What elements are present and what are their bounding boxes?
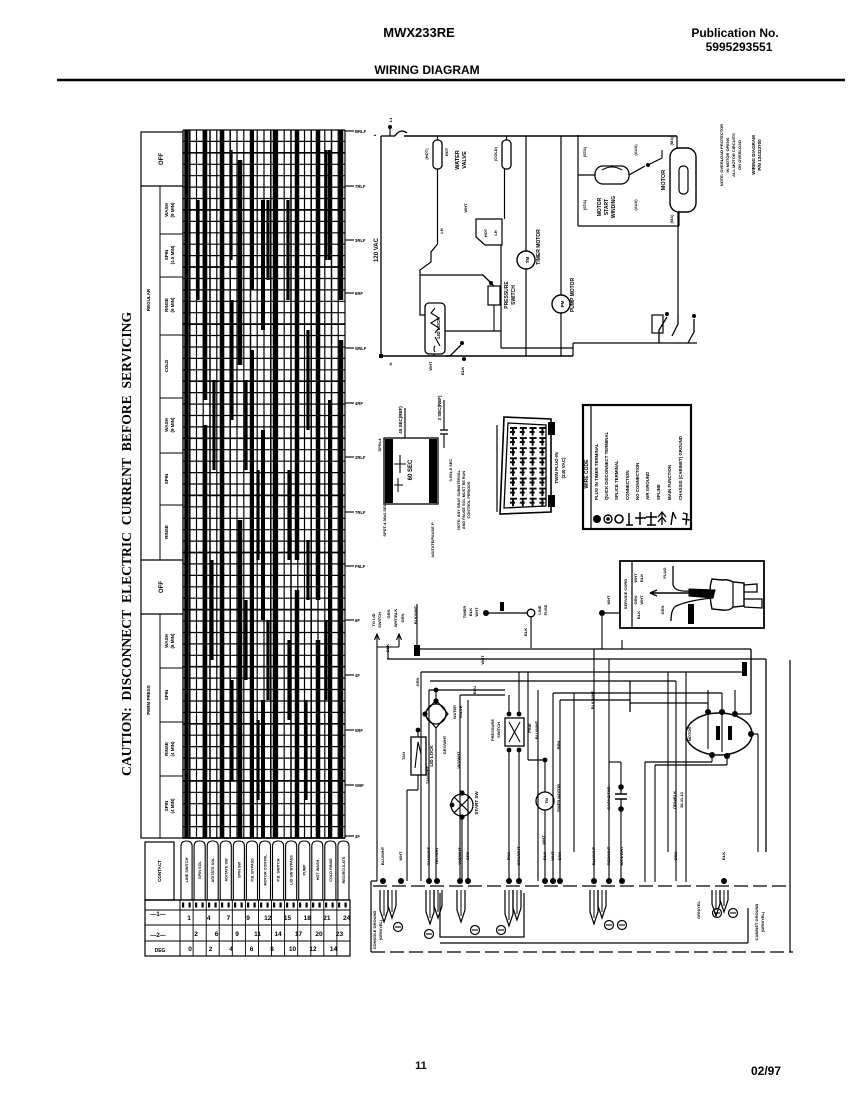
svg-text:PM: PM — [560, 300, 565, 307]
svg-text:GRN: GRN — [386, 609, 391, 618]
secondary bus wires — [415, 662, 747, 690]
svg-text:SPLICE TERMINAL: SPLICE TERMINAL — [614, 460, 619, 500]
svg-text:MOTOR CONTRL: MOTOR CONTRL — [264, 854, 268, 886]
svg-text:SPIN SW: SPIN SW — [237, 862, 241, 878]
ground spades — [380, 890, 728, 926]
svg-text:SPIN: SPIN — [164, 250, 169, 261]
timer intervals box — [377, 406, 438, 537]
motor circuit enclosure — [578, 135, 679, 226]
svg-text:START: START — [604, 199, 610, 215]
svg-text:4RF: 4RF — [355, 401, 363, 406]
svg-text:—2—: —2— — [150, 933, 165, 939]
main bus wires — [387, 604, 766, 852]
svg-text:BLK: BLK — [523, 628, 528, 636]
wire code legend box — [583, 405, 691, 529]
svg-text:WASH: WASH — [164, 634, 169, 648]
svg-text:CONTROL PERIODS: CONTROL PERIODS — [467, 481, 471, 518]
cabinet valve feed wires — [429, 688, 505, 881]
wash temp switch — [420, 203, 502, 315]
svg-text:HOT: HOT — [483, 228, 488, 237]
svg-text:11: 11 — [254, 931, 261, 938]
pressure switch — [483, 275, 517, 331]
svg-text:VIO/WHT: VIO/WHT — [456, 751, 461, 769]
svg-text:21: 21 — [323, 915, 331, 922]
svg-text:COLD RINSE: COLD RINSE — [329, 858, 333, 882]
svg-text:6: 6 — [250, 946, 254, 953]
svg-text:WHT: WHT — [633, 573, 638, 583]
svg-text:14: 14 — [330, 946, 338, 953]
svg-text:WINDING: WINDING — [611, 196, 617, 218]
svg-text:PLUG: PLUG — [662, 567, 667, 578]
svg-text:BRN: BRN — [557, 852, 562, 861]
svg-text:SPIN: SPIN — [164, 801, 169, 812]
svg-text:BLK/WHT: BLK/WHT — [591, 846, 596, 865]
svg-text:W5LF: W5LF — [355, 346, 367, 351]
svg-text:4: 4 — [229, 946, 233, 953]
temp switch junction wires — [420, 245, 573, 348]
svg-text:Publication No.: Publication No. — [691, 26, 778, 40]
svg-text:WHT: WHT — [428, 361, 433, 371]
svg-text:AND PAUSE SOL MUST BE RUN: AND PAUSE SOL MUST BE RUN — [462, 471, 466, 530]
page number — [415, 1060, 427, 1072]
svg-text:LINE: LINE — [537, 605, 542, 614]
svg-text:SERVICE CORD: SERVICE CORD — [623, 579, 628, 609]
svg-text:L1: L1 — [388, 117, 393, 122]
motor harness wires — [421, 640, 758, 882]
start switch — [450, 790, 479, 881]
svg-text:2: 2 — [209, 946, 213, 953]
svg-text:TAN/WHT: TAN/WHT — [426, 846, 431, 865]
svg-text:WHT: WHT — [639, 595, 644, 605]
svg-text:SPIN SOL: SPIN SOL — [198, 860, 202, 878]
svg-text:WATER: WATER — [452, 705, 457, 719]
svg-text:RINSE: RINSE — [164, 525, 169, 539]
svg-text:RINSE: RINSE — [164, 742, 169, 756]
water valve label — [455, 150, 468, 169]
svg-text:GRN: GRN — [660, 605, 665, 614]
svg-text:(HOT): (HOT) — [424, 148, 429, 160]
svg-text:WHT: WHT — [480, 655, 485, 665]
svg-text:RED/WHT: RED/WHT — [606, 846, 611, 865]
svg-text:(MA): (MA) — [669, 214, 674, 224]
svg-text:BLK: BLK — [636, 611, 641, 619]
svg-text:ON OVERLOAD: ON OVERLOAD — [737, 140, 742, 170]
svg-text:(8 MIN): (8 MIN) — [170, 633, 175, 649]
120 VAC supply line — [374, 131, 407, 356]
timer motor — [517, 136, 542, 356]
svg-text:BRN/WHT: BRN/WHT — [619, 846, 624, 865]
svg-text:9: 9 — [246, 915, 250, 922]
svg-text:(4 MIN): (4 MIN) — [170, 741, 175, 757]
svg-text:REGULAR: REGULAR — [146, 288, 151, 311]
reference capacitor — [437, 395, 453, 481]
svg-text:24: 24 — [343, 915, 351, 922]
svg-text:PRESSURE: PRESSURE — [490, 719, 495, 741]
svg-text:SWITCH: SWITCH — [496, 722, 501, 738]
svg-text:(6 MIN): (6 MIN) — [170, 297, 175, 313]
svg-text:8: 8 — [270, 946, 274, 953]
svg-text:WIRING DIAGRAM: WIRING DIAGRAM — [751, 135, 756, 175]
timer sequence grid — [183, 130, 345, 838]
svg-text:ALL MOTOR CIRCUITS: ALL MOTOR CIRCUITS — [731, 133, 736, 177]
svg-text:NO CONNECTION: NO CONNECTION — [635, 463, 640, 500]
svg-text:TIMER: TIMER — [462, 606, 467, 619]
svg-text:BRN: BRN — [556, 741, 561, 750]
svg-text:TAN: TAN — [401, 752, 406, 760]
svg-text:6F: 6F — [355, 618, 360, 623]
svg-text:RECIRCULATE: RECIRCULATE — [342, 856, 346, 883]
water valve solenoid cold — [493, 136, 511, 219]
svg-text:20: 20 — [315, 931, 323, 938]
svg-text:(4 MIN): (4 MIN) — [170, 798, 175, 814]
svg-text:BLU/WHT: BLU/WHT — [534, 720, 539, 739]
svg-text:BRLF: BRLF — [355, 129, 367, 134]
lid lock — [425, 303, 501, 356]
console ground box — [372, 893, 765, 949]
svg-text:SPIN-4: SPIN-4 — [377, 438, 382, 452]
power cord box — [620, 561, 764, 628]
svg-text:GRY/WHT: GRY/WHT — [442, 735, 447, 754]
svg-text:TM: TM — [525, 257, 530, 264]
mid wire labels — [425, 655, 684, 845]
svg-text:4F: 4F — [355, 673, 360, 678]
svg-text:START SW: START SW — [474, 791, 479, 815]
date code — [751, 1064, 781, 1078]
svg-text:1: 1 — [187, 915, 191, 922]
svg-text:WHT: WHT — [541, 835, 546, 845]
model number title — [383, 25, 455, 40]
svg-text:LINE SWITCH: LINE SWITCH — [185, 857, 189, 882]
svg-text:BLK: BLK — [385, 644, 390, 652]
svg-text:5995293551: 5995293551 — [706, 40, 773, 54]
svg-text:BLK/WHT: BLK/WHT — [590, 690, 595, 709]
svg-text:45 SEC(REF): 45 SEC(REF) — [398, 406, 403, 434]
svg-text:OFF: OFF — [159, 153, 165, 165]
drive motor — [686, 690, 754, 759]
svg-text:LH: LH — [439, 228, 444, 233]
svg-text:7: 7 — [227, 915, 231, 922]
water valve solenoid hot — [424, 136, 449, 244]
console boundary dashed — [371, 660, 793, 952]
timer cycle label column — [141, 132, 183, 838]
svg-text:P/N 134323700: P/N 134323700 — [757, 139, 762, 171]
svg-text:QUICK DISCONNECT TERMINAL: QUICK DISCONNECT TERMINAL — [604, 431, 609, 500]
svg-text:(4.5 MIN): (4.5 MIN) — [170, 245, 175, 264]
svg-text:WHT: WHT — [550, 851, 555, 861]
svg-text:18: 18 — [304, 915, 312, 922]
svg-text:GRN: GRN — [633, 595, 638, 604]
svg-text:MAIN FUNCTION: MAIN FUNCTION — [667, 465, 672, 500]
svg-text:CABINET GROUND: CABINET GROUND — [754, 904, 759, 941]
svg-text:CHASSIS (CABINET) GROUND: CHASSIS (CABINET) GROUND — [678, 436, 683, 500]
svg-text:CAUTION: DISCONNECT ELECTRIC: CAUTION: DISCONNECT ELECTRIC CURRENT BEF… — [119, 312, 134, 776]
svg-text:ORN/WHT: ORN/WHT — [516, 846, 521, 866]
svg-text:BLU/WHT: BLU/WHT — [380, 846, 385, 865]
svg-text:WASH: WASH — [164, 203, 169, 217]
svg-text:HOT: HOT — [444, 147, 449, 156]
terminal board pins — [510, 428, 566, 506]
terminal board — [497, 417, 555, 514]
svg-text:10: 10 — [289, 946, 297, 953]
svg-text:2: 2 — [194, 931, 198, 938]
svg-text:TO LID: TO LID — [371, 613, 376, 626]
cabinet pressure switch — [490, 672, 532, 881]
svg-text:P.B. BYPASS: P.B. BYPASS — [250, 858, 254, 882]
top supply bus — [372, 117, 677, 136]
svg-text:7RLF: 7RLF — [355, 510, 366, 515]
svg-text:AGITATE/PAUSE P: AGITATE/PAUSE P — [430, 522, 435, 558]
svg-text:02/97: 02/97 — [751, 1064, 781, 1078]
svg-text:0: 0 — [188, 946, 192, 953]
schematic note text — [719, 124, 762, 186]
svg-text:WHT: WHT — [398, 851, 403, 861]
svg-text:MOTOR: MOTOR — [661, 170, 667, 190]
svg-text:NOTE: ANY GRAY SUBINTERVAL: NOTE: ANY GRAY SUBINTERVAL — [457, 469, 461, 530]
svg-text:PLUG IN TIMER TERMINAL: PLUG IN TIMER TERMINAL — [594, 443, 599, 500]
svg-text:PUMP: PUMP — [303, 864, 307, 875]
svg-text:TWIN PLUG-IN: TWIN PLUG-IN — [554, 452, 559, 483]
console screws — [394, 909, 738, 939]
svg-text:TIMER MOTOR: TIMER MOTOR — [536, 229, 542, 265]
svg-text:AIR GROUND: AIR GROUND — [645, 472, 650, 500]
run capacitor — [606, 762, 627, 881]
svg-text:VALVE: VALVE — [462, 151, 468, 169]
svg-text:(COLD): (COLD) — [493, 146, 498, 161]
svg-text:(GRN/YEL): (GRN/YEL) — [378, 919, 383, 940]
svg-text:PERM PRESS: PERM PRESS — [146, 685, 151, 715]
timer note text — [430, 469, 471, 557]
svg-text:BLK: BLK — [721, 852, 726, 860]
cabinet lid lock — [401, 728, 434, 881]
svg-text:PRESSURE: PRESSURE — [504, 281, 510, 309]
bottom return bus — [379, 354, 573, 365]
svg-text:WHT/BLK: WHT/BLK — [393, 609, 398, 628]
svg-text:TM: TM — [544, 797, 549, 803]
svg-text:11: 11 — [415, 1060, 427, 1072]
svg-text:P.B. SWITCH: P.B. SWITCH — [277, 858, 281, 881]
svg-text:6: 6 — [215, 931, 219, 938]
svg-text:60 SEC: 60 SEC — [408, 459, 414, 480]
svg-text:WHT: WHT — [463, 203, 468, 213]
svg-text:VIO/WHT: VIO/WHT — [457, 847, 462, 865]
svg-text:(9 MIN): (9 MIN) — [170, 417, 175, 433]
svg-text:WIRE CODE: WIRE CODE — [584, 459, 590, 489]
svg-text:9: 9 — [235, 931, 239, 938]
wiring diagram title — [374, 63, 479, 77]
svg-text:SPLINE: SPLINE — [656, 484, 661, 500]
svg-text:AGITATE SW: AGITATE SW — [224, 858, 228, 882]
svg-text:BLK: BLK — [468, 608, 473, 616]
svg-text:SWITCH: SWITCH — [511, 285, 517, 305]
svg-text:—1—: —1— — [150, 912, 165, 918]
motor start winding — [578, 144, 662, 218]
svg-text:LID LOCK: LID LOCK — [429, 745, 434, 767]
svg-text:HOT WASH: HOT WASH — [316, 860, 320, 881]
svg-text:BLK: BLK — [639, 574, 644, 582]
line fuse — [462, 595, 620, 649]
svg-text:ORN/BLK: ORN/BLK — [672, 791, 677, 809]
svg-text:DEG: DEG — [155, 948, 166, 954]
svg-text:SWITCH: SWITCH — [377, 612, 382, 628]
svg-text:N: N — [388, 362, 393, 365]
svg-text:GRN: GRN — [400, 613, 405, 622]
svg-text:BLK: BLK — [460, 367, 465, 375]
svg-text:MOTOR: MOTOR — [687, 726, 692, 741]
svg-text:PUMP MOTOR: PUMP MOTOR — [570, 277, 576, 312]
pump motor — [552, 136, 576, 356]
svg-text:SPIN: SPIN — [164, 474, 169, 485]
svg-text:7RLF: 7RLF — [355, 184, 366, 189]
svg-text:BLK/WHT: BLK/WHT — [413, 605, 418, 624]
motor lead down — [677, 212, 679, 314]
svg-text:CONNECTION: CONNECTION — [625, 470, 630, 500]
svg-text:SPDT-4 36±2 SEC: SPDT-4 36±2 SEC — [382, 503, 387, 536]
publication number — [691, 26, 778, 54]
svg-text:5RF: 5RF — [355, 728, 363, 733]
svg-text:FUSE: FUSE — [543, 604, 548, 615]
timer chart wire stubs — [345, 129, 367, 839]
timer contact number table — [145, 841, 350, 900]
svg-text:COLD: COLD — [164, 359, 169, 372]
svg-text:17: 17 — [295, 931, 303, 938]
svg-text:BLU: BLU — [472, 686, 477, 694]
svg-text:YEL/WHT: YEL/WHT — [434, 846, 439, 865]
svg-text:LH: LH — [493, 230, 498, 235]
svg-text:120 VAC: 120 VAC — [374, 237, 380, 262]
svg-text:ORN: ORN — [673, 851, 678, 860]
svg-text:BLU: BLU — [542, 852, 547, 860]
caution note — [119, 312, 134, 776]
svg-text:WATER: WATER — [455, 150, 461, 169]
svg-text:LID LOCK: LID LOCK — [436, 317, 441, 339]
svg-text:12: 12 — [264, 915, 272, 922]
svg-text:(STA): (STA) — [582, 199, 587, 210]
svg-text:GRN/YEL: GRN/YEL — [696, 901, 701, 919]
svg-text:2RLF: 2RLF — [355, 455, 366, 460]
main motor — [661, 136, 696, 224]
svg-text:CAPACITOR: CAPACITOR — [606, 786, 611, 810]
svg-text:IN MOTOR OPENS: IN MOTOR OPENS — [725, 137, 730, 172]
svg-text:(STA): (STA) — [582, 146, 587, 157]
top stub wires to lid switch — [371, 609, 405, 881]
svg-text:GRY: GRY — [465, 851, 470, 860]
svg-text:36-11-10: 36-11-10 — [679, 791, 684, 808]
svg-text:P5LF: P5LF — [355, 564, 366, 569]
svg-text:W6F: W6F — [355, 783, 364, 788]
cabinet timer motor — [528, 672, 561, 881]
wire color labels bottom — [380, 846, 726, 866]
svg-text:MOTOR: MOTOR — [597, 197, 603, 216]
header rule — [57, 79, 845, 81]
svg-text:RINSE: RINSE — [164, 298, 169, 312]
svg-text:3RLF: 3RLF — [355, 238, 366, 243]
motor centrifugal switch — [573, 312, 697, 356]
svg-text:15: 15 — [284, 915, 292, 922]
svg-text:(MA): (MA) — [669, 136, 674, 146]
svg-text:6RF: 6RF — [355, 291, 363, 296]
connector dot row — [380, 878, 727, 884]
svg-text:GRN: GRN — [415, 677, 420, 686]
svg-text:0.05±.5 SEC: 0.05±.5 SEC — [448, 459, 453, 482]
svg-text:TAN/WHT: TAN/WHT — [425, 765, 430, 784]
svg-text:WASH: WASH — [164, 418, 169, 432]
svg-text:(GRN/YEL): (GRN/YEL) — [760, 911, 765, 932]
svg-text:4: 4 — [207, 915, 211, 922]
svg-text:(9 MIN): (9 MIN) — [170, 202, 175, 218]
svg-text:AGITATE SOL: AGITATE SOL — [211, 857, 215, 883]
svg-text:14: 14 — [274, 931, 282, 938]
cabinet water valve — [422, 690, 463, 881]
lid switch — [428, 341, 466, 375]
svg-text:CONTACT: CONTACT — [157, 860, 162, 882]
svg-text:OFF: OFF — [159, 581, 165, 593]
svg-text:LID SW BYPASS: LID SW BYPASS — [290, 855, 294, 885]
svg-text:MWX233RE: MWX233RE — [383, 25, 455, 40]
svg-text:NOTE: OVERLOAD PROTECTOR: NOTE: OVERLOAD PROTECTOR — [719, 124, 724, 186]
svg-text:L: L — [372, 133, 377, 136]
svg-text:(AUX): (AUX) — [633, 199, 638, 211]
svg-text:12: 12 — [309, 946, 317, 953]
svg-text:PNK: PNK — [506, 852, 511, 861]
svg-text:WHT: WHT — [606, 595, 611, 605]
svg-text:(AUX): (AUX) — [633, 144, 638, 156]
middle vertical wires — [538, 649, 630, 881]
svg-text:SPIN: SPIN — [164, 690, 169, 701]
svg-text:(240 VAC): (240 VAC) — [561, 457, 566, 478]
svg-text:WHT: WHT — [474, 607, 479, 617]
svg-text:23: 23 — [336, 931, 344, 938]
svg-text:WIRING DIAGRAM: WIRING DIAGRAM — [374, 63, 479, 77]
timer cam traces — [187, 130, 342, 838]
svg-text:CONSOLE GROUND: CONSOLE GROUND — [372, 911, 377, 950]
svg-text:4F: 4F — [355, 834, 360, 839]
svg-text:3 SEC(REF): 3 SEC(REF) — [437, 395, 442, 421]
